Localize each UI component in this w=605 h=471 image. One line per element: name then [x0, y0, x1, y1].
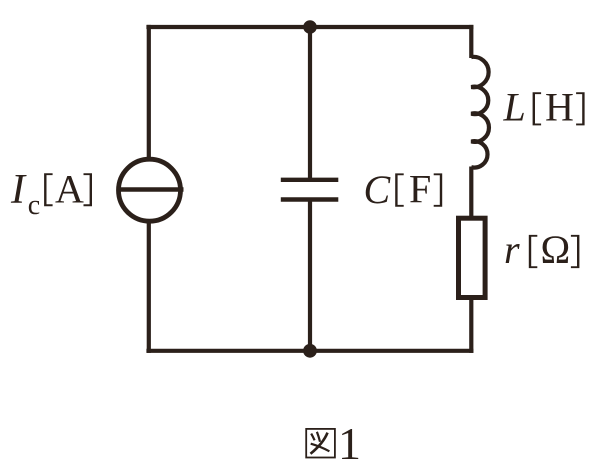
- wire right upper (top wire to inductor): [469, 25, 473, 58]
- svg-text:r: r: [504, 227, 520, 272]
- wire middle upper (top node to capacitor): [308, 27, 312, 180]
- wire right middle (inductor to resistor): [469, 167, 473, 219]
- svg-text:L: L: [503, 85, 526, 130]
- node top junction dot: [303, 20, 317, 34]
- svg-text:A: A: [55, 167, 84, 212]
- label L[H]: [503, 85, 585, 130]
- wire bottom: [146, 349, 473, 353]
- resistor r (box): [459, 218, 486, 297]
- wire right lower (resistor to bottom wire): [469, 300, 473, 353]
- label r[Omega]: [504, 227, 579, 272]
- svg-text:H: H: [545, 85, 574, 130]
- wire middle lower (capacitor to bottom node): [308, 200, 312, 353]
- label Ic[A]: [10, 167, 92, 221]
- wire left lower (current source to bottom wire): [147, 222, 151, 353]
- svg-text:c: c: [28, 190, 40, 221]
- current source Ic: [119, 159, 181, 221]
- svg-text:I: I: [10, 167, 27, 213]
- svg-text:Ω: Ω: [541, 227, 571, 272]
- capacitor C top plate: [281, 178, 339, 182]
- capacitor C bottom plate: [281, 197, 339, 201]
- node bottom junction dot: [303, 344, 317, 358]
- svg-text:C: C: [364, 167, 392, 212]
- wire top (node between source, capacitor, inductor branch): [146, 25, 473, 29]
- wire left upper (top wire to current source): [147, 25, 151, 159]
- label C[F]: [364, 167, 443, 213]
- svg-text:1: 1: [338, 418, 361, 469]
- svg-text:F: F: [409, 167, 431, 212]
- inductor L (4 turns): [471, 57, 489, 168]
- caption figure 1 (zu 1): [306, 418, 361, 469]
